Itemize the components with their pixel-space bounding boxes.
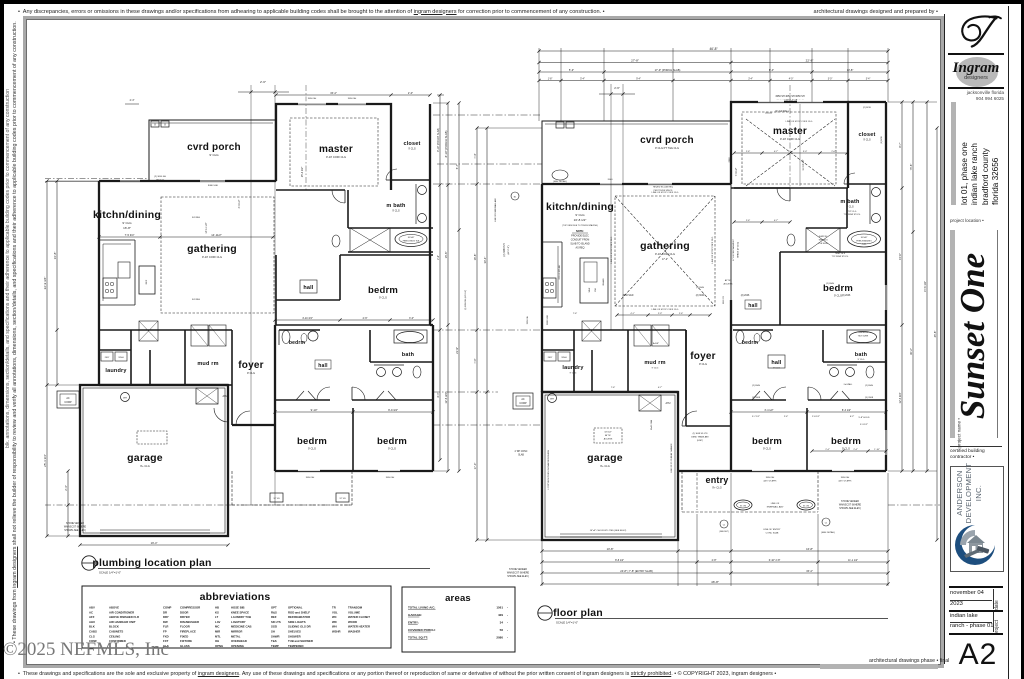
right plan: stone veneer wainscot note right xyxy=(839,501,862,510)
svg-text:9' CLG: 9' CLG xyxy=(842,447,850,451)
svg-text:429: 429 xyxy=(498,613,503,617)
svg-text:ABOVE: ABOVE xyxy=(109,606,119,610)
svg-text:DRY: DRY xyxy=(105,357,110,359)
right plan: gathering bottom dim chain xyxy=(573,313,712,317)
svg-text:COMP: COMP xyxy=(64,401,72,404)
right plan: laundry mud room walls xyxy=(542,330,686,392)
svg-text:WH: WH xyxy=(332,625,337,629)
svg-text:master: master xyxy=(319,144,353,155)
svg-text:ATTIC: ATTIC xyxy=(725,279,732,282)
left plan: hall label middle band xyxy=(315,360,331,369)
left plan: shower with tile surround xyxy=(350,228,390,252)
svg-text:17' ENTERTAINMENT: 17' ENTERTAINMENT xyxy=(732,238,735,261)
left plan: room label bath boxed xyxy=(402,352,415,358)
svg-text:OPNG: OPNG xyxy=(215,644,223,648)
right plan: between-plan dimension lines xyxy=(437,93,444,461)
svg-text:22'-9 3/4″: 22'-9 3/4″ xyxy=(43,277,47,290)
left plan: washer dryer boxes xyxy=(101,352,127,361)
svg-text:3050 SH: 3050 SH xyxy=(308,98,317,100)
left plan: water heater circle xyxy=(121,393,130,402)
svg-text:9'+ CLG: 9'+ CLG xyxy=(712,486,722,490)
left plan: room label cvrd porch xyxy=(187,142,241,157)
svg-text:TILE SURR: TILE SURR xyxy=(858,336,869,338)
svg-text:HB: HB xyxy=(215,606,219,610)
svg-text:OPENING: OPENING xyxy=(231,644,244,648)
svg-text:CLG: CLG xyxy=(89,634,95,638)
svg-text:VOL: VOL xyxy=(332,610,338,614)
top margin disclaimer text xyxy=(18,9,938,15)
left plan: title plumbing location plan xyxy=(82,556,430,575)
svg-text:areas: areas xyxy=(445,593,471,604)
svg-text:WATER HEATER: WATER HEATER xyxy=(348,625,370,629)
left plan: room label m bath xyxy=(386,203,406,213)
svg-text:14'-11/2″: 14'-11/2″ xyxy=(211,233,221,237)
svg-text:2'-4″: 2'-4″ xyxy=(64,485,68,490)
svg-text:13'-8″: 13'-8″ xyxy=(847,68,854,72)
svg-text:TRANSOM: TRANSOM xyxy=(348,606,363,610)
svg-text:2868: 2868 xyxy=(729,157,731,163)
svg-text:(3) 2068: (3) 2068 xyxy=(865,397,874,399)
right plan: title floor plan xyxy=(538,606,888,625)
svg-text:TEMP: TEMP xyxy=(271,644,279,648)
svg-text:16'-8″: 16'-8″ xyxy=(473,254,477,261)
svg-text:LINE OF STOP COFF CLG: LINE OF STOP COFF CLG xyxy=(712,236,714,263)
svg-text:bedrm: bedrm xyxy=(377,436,407,447)
svg-text:LT: LT xyxy=(215,615,219,619)
svg-text:garage: garage xyxy=(587,452,623,464)
svg-text:bedrm: bedrm xyxy=(831,436,861,447)
svg-text:m bath: m bath xyxy=(840,199,860,205)
right plan: main top wall kitchen xyxy=(542,183,731,185)
svg-text:CABINETS: CABINETS xyxy=(109,630,123,634)
svg-text:9'-10' COFF CLG: 9'-10' COFF CLG xyxy=(655,252,675,256)
svg-text:3'-0″: 3'-0″ xyxy=(409,317,414,320)
right plan: top wall texts xyxy=(765,95,813,123)
svg-text:7'-0″: 7'-0″ xyxy=(473,358,477,363)
abbreviations table title xyxy=(200,591,271,603)
left plan: lower bedrooms walls xyxy=(275,325,433,471)
svg-text:SHOWER: SHOWER xyxy=(288,634,301,638)
svg-text:(AT 6′-8″): (AT 6′-8″) xyxy=(507,245,510,254)
svg-text:CONC SLAB: CONC SLAB xyxy=(766,532,779,535)
svg-text:(SEE DET): (SEE DET) xyxy=(719,531,729,533)
svg-text:TEMP GLS: TEMP GLS xyxy=(835,253,846,255)
areas table title xyxy=(445,593,471,604)
svg-text:© COPYRIGHT DES. INGRAM DESIGN: © COPYRIGHT DES. INGRAM DESIGNERS xyxy=(547,449,550,490)
svg-text:2'-6″: 2'-6″ xyxy=(679,313,684,315)
svg-text:AHU: AHU xyxy=(665,402,670,405)
svg-text:4'-7″: 4'-7″ xyxy=(774,151,779,153)
svg-text:LINE OF: LINE OF xyxy=(771,503,780,505)
svg-text:SH: SH xyxy=(271,630,275,634)
right plan: room label m bath xyxy=(840,199,861,216)
left plan: garage door arc into house xyxy=(214,408,228,422)
svg-text:9' CLG PT T&G CLG: 9' CLG PT T&G CLG xyxy=(655,146,679,150)
right plan: master door arc xyxy=(734,188,790,201)
right plan: conc slab text xyxy=(515,451,528,457)
left plan: room label garage xyxy=(127,452,163,468)
right plan: bottom wall window markers xyxy=(752,470,854,471)
svg-text:CEILING: CEILING xyxy=(109,634,120,638)
areas table rows xyxy=(408,606,508,640)
svg-text:closet: closet xyxy=(403,141,420,147)
right plan: room label closet xyxy=(858,132,875,142)
svg-text:WSH: WSH xyxy=(118,357,124,359)
svg-text:SHOWN-SEE ELEV): SHOWN-SEE ELEV) xyxy=(839,508,861,510)
svg-text:8'-4″: 8'-4″ xyxy=(437,392,440,397)
svg-text:bedrm: bedrm xyxy=(742,340,759,346)
svg-text:WH: WH xyxy=(550,399,554,401)
svg-text:TUB/SHWR: TUB/SHWR xyxy=(858,332,869,334)
svg-text:9' CLG: 9' CLG xyxy=(379,296,387,300)
svg-text:16'-8″: 16'-8″ xyxy=(806,547,813,551)
svg-text:ISLAND: ISLAND xyxy=(602,278,605,286)
svg-text:9' CLG: 9' CLG xyxy=(846,206,854,209)
svg-text:SHELVES: SHELVES xyxy=(288,630,301,634)
svg-text:30'-4″: 30'-4″ xyxy=(483,257,487,264)
svg-text:FREE-STANDING: FREE-STANDING xyxy=(856,240,872,243)
svg-text:LINE OF KNEEWALL ABV: LINE OF KNEEWALL ABV xyxy=(494,198,497,222)
svg-text:19'-4″: 19'-4″ xyxy=(151,541,158,545)
svg-text:4'-0″: 4'-0″ xyxy=(789,78,794,80)
svg-text:2'-0″: 2'-0″ xyxy=(408,91,413,95)
svg-text:(2) ROD: (2) ROD xyxy=(881,136,883,144)
svg-text:46'-8″: 46'-8″ xyxy=(711,580,719,584)
svg-text:SCALE 1/4″=1′-0″: SCALE 1/4″=1′-0″ xyxy=(99,571,121,575)
svg-text:NOTE:: NOTE: xyxy=(576,229,584,233)
right plan: bath 2 walls and fixtures xyxy=(823,330,886,378)
svg-text:MIRROR: MIRROR xyxy=(231,630,242,634)
svg-text:20x80 CAB: 20x80 CAB xyxy=(650,419,653,430)
svg-text:2868 SGD: 2868 SGD xyxy=(547,314,549,325)
right plan: kitchen counters xyxy=(542,242,562,307)
ingram designers script text xyxy=(946,60,1006,77)
certified building contractor label xyxy=(950,449,985,461)
svg-text:4'-1″: 4'-1″ xyxy=(630,313,635,315)
svg-text:2'-6″: 2'-6″ xyxy=(831,151,836,153)
svg-text:TYP CLG: TYP CLG xyxy=(848,211,857,213)
svg-text:9' CLG: 9' CLG xyxy=(575,213,585,217)
left plan: laundry mud room walls xyxy=(99,330,232,385)
right plan: scattered dim texts xyxy=(547,157,874,483)
svg-text:6'-2″: 6'-2″ xyxy=(850,416,855,418)
svg-text:9' CLG: 9' CLG xyxy=(863,139,871,142)
svg-text:KS: KS xyxy=(215,610,219,614)
svg-text:R&S: R&S xyxy=(271,610,277,614)
svg-text:46'-8″: 46'-8″ xyxy=(709,47,718,51)
svg-text:8'-10″ (PORCH SLAB): 8'-10″ (PORCH SLAB) xyxy=(444,131,448,158)
svg-text:2'-4″: 2'-4″ xyxy=(784,416,789,418)
date box xyxy=(950,590,984,596)
svg-text:(UNIT): (UNIT) xyxy=(697,440,703,442)
svg-text:MIR: MIR xyxy=(215,630,220,634)
svg-text:2'-6″: 2'-6″ xyxy=(437,255,440,260)
right plan: room label hall boxed xyxy=(768,355,785,370)
svg-text:WD: WD xyxy=(332,620,337,624)
sunset one right thin line xyxy=(997,230,998,438)
title block right border line xyxy=(1008,6,1009,679)
svg-text:1'-10″: 1'-10″ xyxy=(874,449,880,451)
right plan: top dimension chain row 2 xyxy=(537,58,889,64)
svg-text:SLIDING GLS DR: SLIDING GLS DR xyxy=(288,625,311,629)
svg-text:plumbing location plan: plumbing location plan xyxy=(92,557,211,569)
svg-text:(SEE DETAIL): (SEE DETAIL) xyxy=(821,531,835,534)
svg-text:DR: DR xyxy=(163,610,167,614)
svg-text:laundry: laundry xyxy=(105,368,127,374)
svg-text:3'-4 1/2″: 3'-4 1/2″ xyxy=(764,409,773,412)
anderson logo xyxy=(952,522,998,568)
separator line under logo xyxy=(948,53,1004,55)
svg-text:CABS: CABS xyxy=(89,630,97,634)
svg-text:FLR REG: FLR REG xyxy=(192,217,201,219)
svg-text:2'-4″: 2'-4″ xyxy=(825,449,830,451)
svg-text:LINE OF 8'0 CURB AT GARAGE: LINE OF 8'0 CURB AT GARAGE xyxy=(670,443,673,473)
page border left bar xyxy=(0,0,4,679)
right plan: master interior dims xyxy=(732,104,848,186)
svg-text:hall: hall xyxy=(748,303,758,309)
svg-text:METAL: METAL xyxy=(231,634,241,638)
svg-text:TOTAL SQ FT:: TOTAL SQ FT: xyxy=(408,636,428,640)
svg-text:(2) RHS: (2) RHS xyxy=(752,385,760,387)
svg-text:WAINSCOT (WHERE: WAINSCOT (WHERE xyxy=(839,504,862,507)
right plan: AC COMP pad xyxy=(513,393,533,409)
svg-text:75'-6″: 75'-6″ xyxy=(909,164,913,171)
svg-text:COMP: COMP xyxy=(163,606,172,610)
svg-text:mud rm: mud rm xyxy=(197,361,218,367)
architectural drawings phase final note xyxy=(869,658,949,664)
left plan: room label hall boxed xyxy=(300,280,317,293)
sunset one gray bar xyxy=(950,230,955,438)
right plan: bottom dimension chain row 2 xyxy=(540,559,889,564)
svg-text:3050 SH: 3050 SH xyxy=(386,477,395,479)
left plan: small bedrm bath label xyxy=(289,334,307,347)
svg-text:DOOR: DOOR xyxy=(180,610,188,614)
svg-text:8'-4″: 8'-4″ xyxy=(769,68,774,72)
svg-text:9'-10″ (PORCH SLAB): 9'-10″ (PORCH SLAB) xyxy=(437,128,440,152)
right plan: hall bath fixtures xyxy=(733,330,773,344)
project location vertical text xyxy=(980,101,982,205)
abbreviations table box xyxy=(82,586,391,648)
svg-text:9' CLG: 9' CLG xyxy=(388,447,396,451)
right plan: top dimension chain row 3 xyxy=(537,68,889,74)
svg-text:BLK: BLK xyxy=(89,625,95,629)
svg-text:WAINSCOT (WHERE: WAINSCOT (WHERE xyxy=(64,526,87,529)
svg-text:bedrm: bedrm xyxy=(752,436,782,447)
svg-text:DW: DW xyxy=(163,620,168,624)
svg-text:25'-3 3/4″: 25'-3 3/4″ xyxy=(43,454,47,467)
svg-text:(2) 3050 SH: (2) 3050 SH xyxy=(154,176,166,178)
right plan: interior dimension row baths xyxy=(810,449,887,453)
svg-text:15'-6″: 15'-6″ xyxy=(898,253,902,260)
svg-text:8: 8 xyxy=(164,124,166,127)
right plan: room label foyer xyxy=(690,351,715,366)
title block left border line xyxy=(944,14,945,664)
left plan: room label bedrm left xyxy=(297,436,327,451)
svg-text:SHWR W/: SHWR W/ xyxy=(819,236,828,238)
left plan: master door arc xyxy=(332,190,345,203)
project name label vertical xyxy=(957,398,962,448)
svg-text:FIREPLACE: FIREPLACE xyxy=(180,630,196,634)
svg-text:ST. VN: ST. VN xyxy=(274,498,281,500)
left plan: upper bedrm walls xyxy=(276,255,433,300)
svg-text:ST. VN: ST. VN xyxy=(803,506,810,508)
svg-text:OPT: OPT xyxy=(271,606,277,610)
svg-text:closet: closet xyxy=(858,132,875,138)
svg-text:AC: AC xyxy=(66,397,70,400)
svg-text:MEDICINE CAB: MEDICINE CAB xyxy=(231,625,252,629)
svg-text:hall: hall xyxy=(303,285,314,291)
svg-text:SGD: SGD xyxy=(271,625,277,629)
svg-text:CONDUIT FROM: CONDUIT FROM xyxy=(571,239,590,242)
right plan: kitchen island xyxy=(580,258,608,303)
svg-text:DW: DW xyxy=(595,288,597,291)
left plan: gathering tray ceiling dashed xyxy=(161,197,274,313)
svg-text:12'-5 3/4″: 12'-5 3/4″ xyxy=(444,392,448,403)
right plan: room label laundry xyxy=(562,365,584,375)
svg-text:5'-7″: 5'-7″ xyxy=(455,164,459,169)
svg-text:REFRIGERATOR: REFRIGERATOR xyxy=(288,615,310,619)
svg-text:FLR: FLR xyxy=(163,625,168,629)
right plan: AHU closet xyxy=(639,395,671,411)
svg-text:45'-8″: 45'-8″ xyxy=(933,331,937,338)
svg-text:TUB and SHOWER: TUB and SHOWER xyxy=(288,639,313,643)
svg-text:9' CLG: 9' CLG xyxy=(773,368,780,370)
svg-text:2'-8″: 2'-8″ xyxy=(712,559,717,562)
left plan: kitchen counters xyxy=(99,240,135,305)
svg-text:2080: 2080 xyxy=(496,636,503,640)
right plan: free standing tub oval xyxy=(848,231,881,247)
svg-text:ACCESS: ACCESS xyxy=(604,438,613,441)
svg-text:16″x8″ OH DR W/ LITES (SEE ELE: 16″x8″ OH DR W/ LITES (SEE ELEV) xyxy=(590,530,627,532)
right plan: pantry closet x-box xyxy=(582,321,601,341)
svg-text:OH: OH xyxy=(215,639,219,643)
svg-text:C1: C1 xyxy=(825,523,828,525)
right plan: porch post circle detail xyxy=(511,170,568,200)
right plan: bottom dimension chain row 3 xyxy=(540,569,889,575)
svg-text:7'-6″: 7'-6″ xyxy=(611,387,616,389)
svg-text:WASHER: WASHER xyxy=(348,630,360,634)
svg-text:3050 SH: 3050 SH xyxy=(306,477,315,479)
svg-text:(2) 2046: (2) 2046 xyxy=(741,295,750,297)
left plan: interior dimension row kitchen xyxy=(97,233,274,239)
left plan: garage attic access dashed xyxy=(137,431,167,444)
svg-text:9' CLG: 9' CLG xyxy=(209,153,219,157)
svg-text:laundry: laundry xyxy=(562,365,584,371)
left plan: master top dimension row xyxy=(125,91,432,104)
left plan: interior dimension row bath xyxy=(273,317,434,322)
svg-text:(2) RHS: (2) RHS xyxy=(696,287,704,289)
left plan: closet partition xyxy=(386,169,430,180)
svg-text:2'-8 1/2″: 2'-8 1/2″ xyxy=(812,416,820,418)
svg-text:16'-8 1/2″: 16'-8 1/2″ xyxy=(574,218,587,222)
svg-text:COVERED PORCH:: COVERED PORCH: xyxy=(408,628,436,632)
left plan: bedroom door arcs xyxy=(296,387,396,400)
right plan: room label cvrd porch xyxy=(640,135,694,150)
right plan: covered porch walls xyxy=(542,121,731,184)
right plan: room label bedrm right xyxy=(831,436,861,451)
svg-text:FLR REG: FLR REG xyxy=(192,299,201,301)
svg-text:3050 SGD: 3050 SGD xyxy=(623,295,634,297)
svg-text:AFF: AFF xyxy=(89,615,95,619)
svg-text:AHU: AHU xyxy=(89,620,95,624)
dash-dot reference lines between plans xyxy=(45,90,940,505)
svg-text:4'-7″: 4'-7″ xyxy=(658,387,663,389)
left plan: AHU closet xyxy=(196,388,228,404)
svg-text:SINK: SINK xyxy=(589,287,591,292)
svg-text:A-5/8″: A-5/8″ xyxy=(653,342,659,345)
svg-text:▪: ▪ xyxy=(507,637,508,640)
svg-text:STONE VENEER: STONE VENEER xyxy=(509,569,527,571)
right plan: garage walls xyxy=(542,392,678,540)
left plan: foyer walls xyxy=(228,330,275,425)
svg-text:12'-5 3/4″: 12'-5 3/4″ xyxy=(898,392,902,403)
svg-text:TILE SURR: TILE SURR xyxy=(818,243,828,245)
svg-text:2'-3″: 2'-3″ xyxy=(658,313,663,315)
svg-text:(1) 3068 SD LTS: (1) 3068 SD LTS xyxy=(693,433,709,435)
svg-text:34: 34 xyxy=(500,621,504,625)
svg-text:2'-6″: 2'-6″ xyxy=(746,151,751,153)
svg-text:C1: C1 xyxy=(723,525,726,527)
svg-text:▪: ▪ xyxy=(507,614,508,617)
left margin vertical text column 1 xyxy=(12,23,18,643)
svg-text:▪: ▪ xyxy=(507,622,508,625)
svg-text:5'-4″: 5'-4″ xyxy=(580,78,585,80)
svg-text:foyer: foyer xyxy=(690,351,715,362)
svg-text:TYP WDW STOOL: TYP WDW STOOL xyxy=(844,214,862,216)
svg-text:9' CLG: 9' CLG xyxy=(652,368,659,370)
svg-text:LINE OF STOP COFF CLG: LINE OF STOP COFF CLG xyxy=(611,236,613,263)
svg-text:ENTRY:: ENTRY: xyxy=(408,621,419,625)
svg-text:ST. VN: ST. VN xyxy=(340,498,347,500)
anderson development vertical text xyxy=(968,445,970,541)
svg-text:(SEE DETAIL): (SEE DETAIL) xyxy=(553,180,567,183)
svg-text:9'-4″: 9'-4″ xyxy=(636,78,641,80)
svg-text:SHOWN-SEE ELEV): SHOWN-SEE ELEV) xyxy=(64,530,86,532)
project box separator xyxy=(949,610,1003,612)
left plan: centerline markers dashed xyxy=(45,179,352,506)
svg-text:3050 SH: 3050 SH xyxy=(841,477,850,479)
svg-text:9'-10″: 9'-10″ xyxy=(311,408,318,412)
svg-text:1'-8″: 1'-8″ xyxy=(548,78,553,80)
left plan: hall bath fixtures xyxy=(279,330,320,345)
svg-text:(2) 3050 SH: (2) 3050 SH xyxy=(503,243,506,256)
right plan: bottom dimension chain row 1 xyxy=(540,547,889,553)
svg-text:FXD: FXD xyxy=(163,634,169,638)
svg-text:TYP WDW STOOL: TYP WDW STOOL xyxy=(832,256,850,258)
svg-text:4' DP CONC: 4' DP CONC xyxy=(515,451,528,453)
date box separator top xyxy=(949,586,1003,588)
svg-text:PROVIDE ELEC: PROVIDE ELEC xyxy=(571,235,589,238)
svg-text:kitchn/dining: kitchn/dining xyxy=(546,201,614,213)
sheet number A2 xyxy=(952,638,1004,672)
svg-text:FLOOR: FLOOR xyxy=(180,625,190,629)
svg-text:9'-9 3/4″: 9'-9 3/4″ xyxy=(388,408,398,412)
svg-text:(2) RHS: (2) RHS xyxy=(826,283,834,285)
svg-text:ACCESS: ACCESS xyxy=(724,283,734,286)
svg-text:ABOVE FINISHED FLR: ABOVE FINISHED FLR xyxy=(109,615,139,619)
left plan: hall walls xyxy=(276,255,433,325)
svg-text:(TOP VIEW DUE TO TRUSS SPACING: (TOP VIEW DUE TO TRUSS SPACING) xyxy=(562,224,598,227)
right plan: upper bedrm walls xyxy=(731,252,886,325)
left plan: room label closet xyxy=(403,141,420,151)
left plan: m bath free standing tub xyxy=(395,232,427,247)
svg-text:cvrd porch: cvrd porch xyxy=(187,142,241,153)
svg-text:SLAB: SLAB xyxy=(518,454,524,457)
svg-text:HOSE BIB: HOSE BIB xyxy=(231,606,245,610)
right plan: mud room bench lockers xyxy=(634,325,669,346)
svg-text:8'-8 1/2″: 8'-8 1/2″ xyxy=(615,559,624,562)
svg-text:bedrm: bedrm xyxy=(297,436,327,447)
